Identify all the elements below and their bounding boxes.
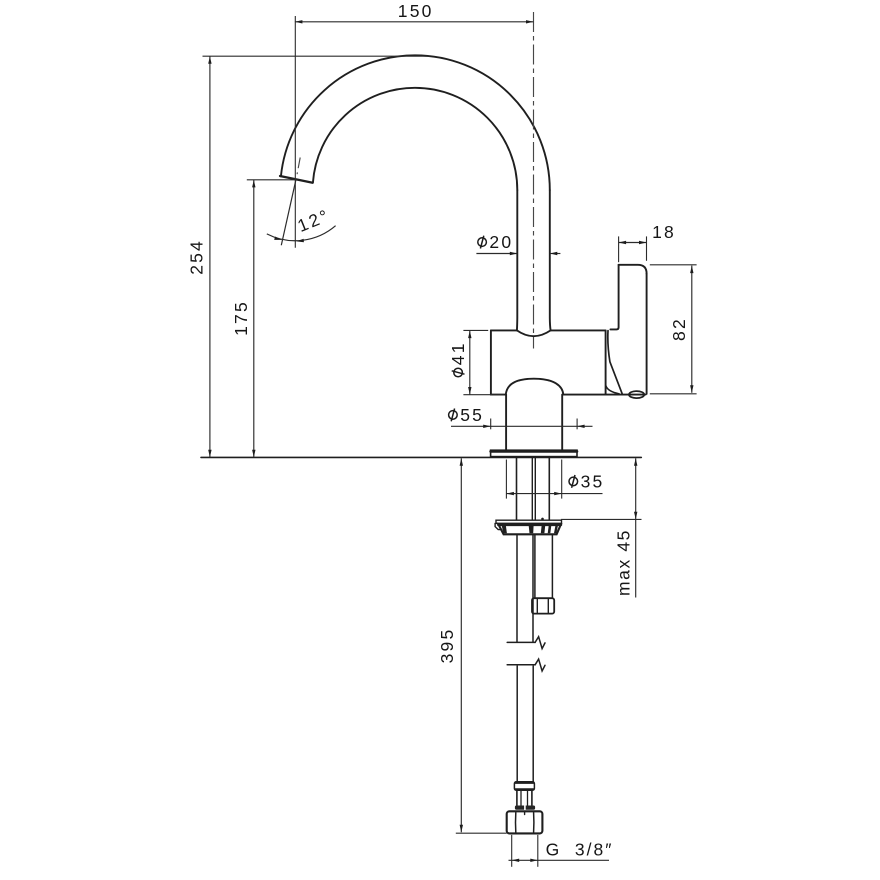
arrow angle left [274, 237, 282, 240]
arrow phi35 right [554, 492, 562, 495]
arrow max45 top [634, 458, 637, 466]
dim phi55 line [451, 425, 593, 427]
dim 395 bottom ext [456, 832, 507, 834]
dim phi41 top ext [463, 329, 488, 331]
svg-text:254: 254 [186, 239, 206, 275]
flange thick top edge [491, 450, 577, 453]
dim 395 line [460, 458, 462, 832]
fitting neck inner lines [521, 790, 528, 805]
pipe-body saddle junction [517, 330, 551, 336]
bell dome top [506, 379, 564, 395]
break symbol 2 zigzag [535, 659, 545, 671]
break symbol 2 line [507, 664, 535, 666]
bell left side [505, 395, 507, 451]
collar top edge [515, 782, 533, 784]
arrow phi55 right [577, 425, 585, 428]
arrow 82 bottom [690, 385, 693, 393]
dim phi35 ext right [561, 460, 563, 499]
dim phi20 left segment [476, 253, 517, 255]
break symbol 1 line [507, 641, 535, 643]
arrow phi35 left [506, 492, 514, 495]
pipe left wall [516, 190, 518, 330]
nut hex flats [516, 813, 534, 833]
svg-text:35: 35 [581, 471, 605, 491]
mounting nut body [498, 524, 561, 534]
arrow 395 bottom [460, 825, 463, 833]
base flange [491, 450, 577, 456]
body top line [491, 329, 606, 331]
dim 175 line [253, 180, 255, 457]
fitting neck [517, 790, 532, 805]
nut rib 2 [529, 526, 534, 533]
G3/8 nut [507, 811, 543, 833]
spout tip cut line [280, 176, 313, 183]
mounting nut thick top [498, 523, 561, 526]
dim G38 ext left [511, 835, 513, 867]
nut rib 5 [554, 526, 558, 533]
nut rib 4 [548, 526, 552, 533]
label phi20 [478, 232, 513, 252]
arrow phi41 top [468, 331, 471, 339]
svg-text:max 45: max 45 [614, 529, 634, 596]
compression olive [515, 806, 535, 810]
arrow max45 bottom [634, 512, 637, 520]
handle top edge [619, 265, 647, 274]
dim 18 line [619, 242, 647, 244]
dim phi41 bottom ext [463, 394, 504, 396]
dim G38 line [509, 859, 610, 861]
svg-text:20: 20 [489, 232, 513, 252]
pipe right wall [549, 190, 552, 330]
dim phi20 right segment [550, 253, 561, 255]
nut rib 3 [541, 526, 545, 533]
dim G38 ext right [537, 835, 539, 867]
handle cone fillet arc [606, 386, 619, 394]
angle 12 slant ray [281, 179, 296, 245]
outlet tilted centerline dash [297, 158, 300, 175]
handle cone left edge [608, 331, 622, 394]
arrow phi55 left [483, 425, 491, 428]
arrow 395 top [460, 458, 463, 466]
dim 175 top ext line [247, 179, 296, 181]
shank right wall [548, 458, 550, 519]
arrow 175 top [252, 180, 255, 188]
hex fitting flats [537, 599, 548, 612]
handle right edge [646, 274, 648, 394]
dim 18 ext right [646, 236, 648, 260]
body right edge [605, 330, 607, 394]
arrow 254 top [208, 56, 211, 64]
arrow 18 left [619, 241, 627, 244]
svg-text:82: 82 [669, 317, 689, 341]
short hose hex fitting [532, 598, 554, 613]
label phi35 [569, 471, 604, 491]
arrow 175 bottom [252, 450, 255, 458]
spout inner arc [313, 88, 517, 190]
svg-text:55: 55 [460, 405, 484, 425]
dim 82 line [691, 266, 693, 393]
centerline [533, 12, 535, 349]
dim 150 line [295, 21, 534, 23]
break symbol 1 zigzag [535, 637, 545, 649]
angle 12 arc [267, 226, 336, 241]
dim 254 line [209, 56, 211, 457]
dim 82 bottom ext [650, 393, 697, 395]
dim phi41 line [469, 331, 471, 395]
body left edge [490, 330, 492, 394]
svg-text:175: 175 [231, 300, 251, 336]
arrow phi41 bottom [468, 387, 471, 395]
bell right side [561, 395, 563, 451]
dim 150 ext line left [294, 16, 296, 248]
arrow 150 left [295, 20, 303, 23]
dim phi35 ext left [505, 460, 507, 499]
svg-text:395: 395 [437, 628, 457, 664]
arrow phi20 left [510, 252, 518, 255]
svg-text:18: 18 [652, 222, 676, 242]
short hose below nut [535, 534, 553, 598]
arrow 18 right [639, 241, 647, 244]
arrow 254 bottom [208, 450, 211, 458]
dim 82 top ext [650, 264, 697, 266]
shank left wall [516, 458, 518, 519]
arrow 82 top [690, 266, 693, 274]
handle left edge upper [610, 265, 618, 330]
long hose below nut [517, 534, 533, 642]
nut top center tick [524, 811, 526, 814]
countertop line [201, 456, 641, 458]
hose lower section [517, 666, 533, 782]
svg-text:41: 41 [448, 341, 468, 365]
collar bottom edge [515, 788, 533, 790]
olive center gap [524, 805, 526, 810]
dim 254 top ext line [203, 55, 431, 57]
arrow G38 left [512, 859, 520, 862]
dim 18 ext left [618, 236, 620, 262]
arrow G38 right [530, 859, 538, 862]
mounting nut top plate [496, 520, 562, 523]
arrow angle right [296, 239, 304, 242]
arrow 150 right [526, 20, 534, 23]
mounting nut left tab [495, 523, 501, 529]
label phi41 [448, 341, 468, 376]
nut top dot [541, 518, 544, 521]
arrow phi20 right [550, 252, 558, 255]
dim phi35 line [506, 493, 602, 495]
body bottom line [491, 394, 646, 396]
svg-text:G 3/8″: G 3/8″ [546, 840, 614, 860]
hose end collar [514, 782, 534, 790]
dim phi55 ext left [490, 419, 492, 430]
label phi55 [449, 405, 484, 425]
spout outer arc [281, 55, 550, 190]
dim max45 line [635, 458, 637, 597]
svg-text:150: 150 [398, 1, 434, 21]
hose lines in shank [532, 458, 535, 519]
handle pivot ellipse [629, 391, 644, 398]
dim max45 bottom ext [561, 518, 642, 520]
nut rib 1 [502, 526, 507, 533]
dim phi55 ext right [576, 419, 578, 430]
